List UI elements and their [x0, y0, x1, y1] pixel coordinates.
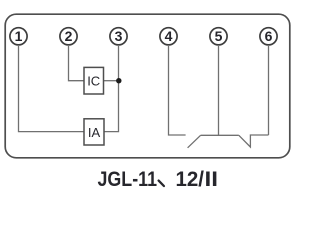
wire: terminal 6 down to contact [268, 45, 270, 135]
wire: common bar from blade to terminal 5 and onward [201, 134, 239, 136]
terminal 1 [10, 28, 27, 45]
contact blade between terminals 4 and 5 (normally open) [188, 135, 201, 148]
svg-text:IC: IC [87, 74, 100, 89]
wire: IC coil right side to node on terminal-3 line [104, 80, 119, 82]
svg-text:II: II [205, 168, 219, 191]
svg-text:1: 1 [15, 28, 23, 44]
coil IC [84, 67, 104, 94]
terminal 4 [160, 28, 177, 45]
wire: terminal 1 down and right to IA coil [19, 45, 85, 132]
contact notch between terminals 5 and 6 [239, 135, 269, 147]
wire: terminal 4 down with fixed contact stub [169, 45, 186, 135]
terminal 2 [60, 28, 77, 45]
terminal 5 [210, 28, 227, 45]
relay case outline [5, 14, 290, 158]
svg-text:2: 2 [65, 28, 73, 44]
wire: terminal 3 down to IA coil right side [104, 45, 119, 132]
terminal 3 [110, 28, 127, 45]
junction node on terminal-3 line [116, 78, 121, 83]
svg-text:3: 3 [115, 28, 123, 44]
terminal 6 [260, 28, 277, 45]
svg-text:4: 4 [165, 28, 173, 44]
wire: terminal 2 down and right to IC coil [69, 45, 85, 81]
svg-text:5: 5 [215, 28, 223, 44]
svg-text:12/: 12/ [176, 168, 205, 191]
svg-text:6: 6 [265, 28, 273, 44]
wire: terminal 5 down to common bar [218, 45, 220, 135]
svg-text:JGL-11: JGL-11 [98, 168, 158, 191]
svg-text:IA: IA [88, 125, 101, 140]
label: model caption JGL-11, 12/II [98, 168, 219, 191]
coil IA [84, 119, 104, 145]
